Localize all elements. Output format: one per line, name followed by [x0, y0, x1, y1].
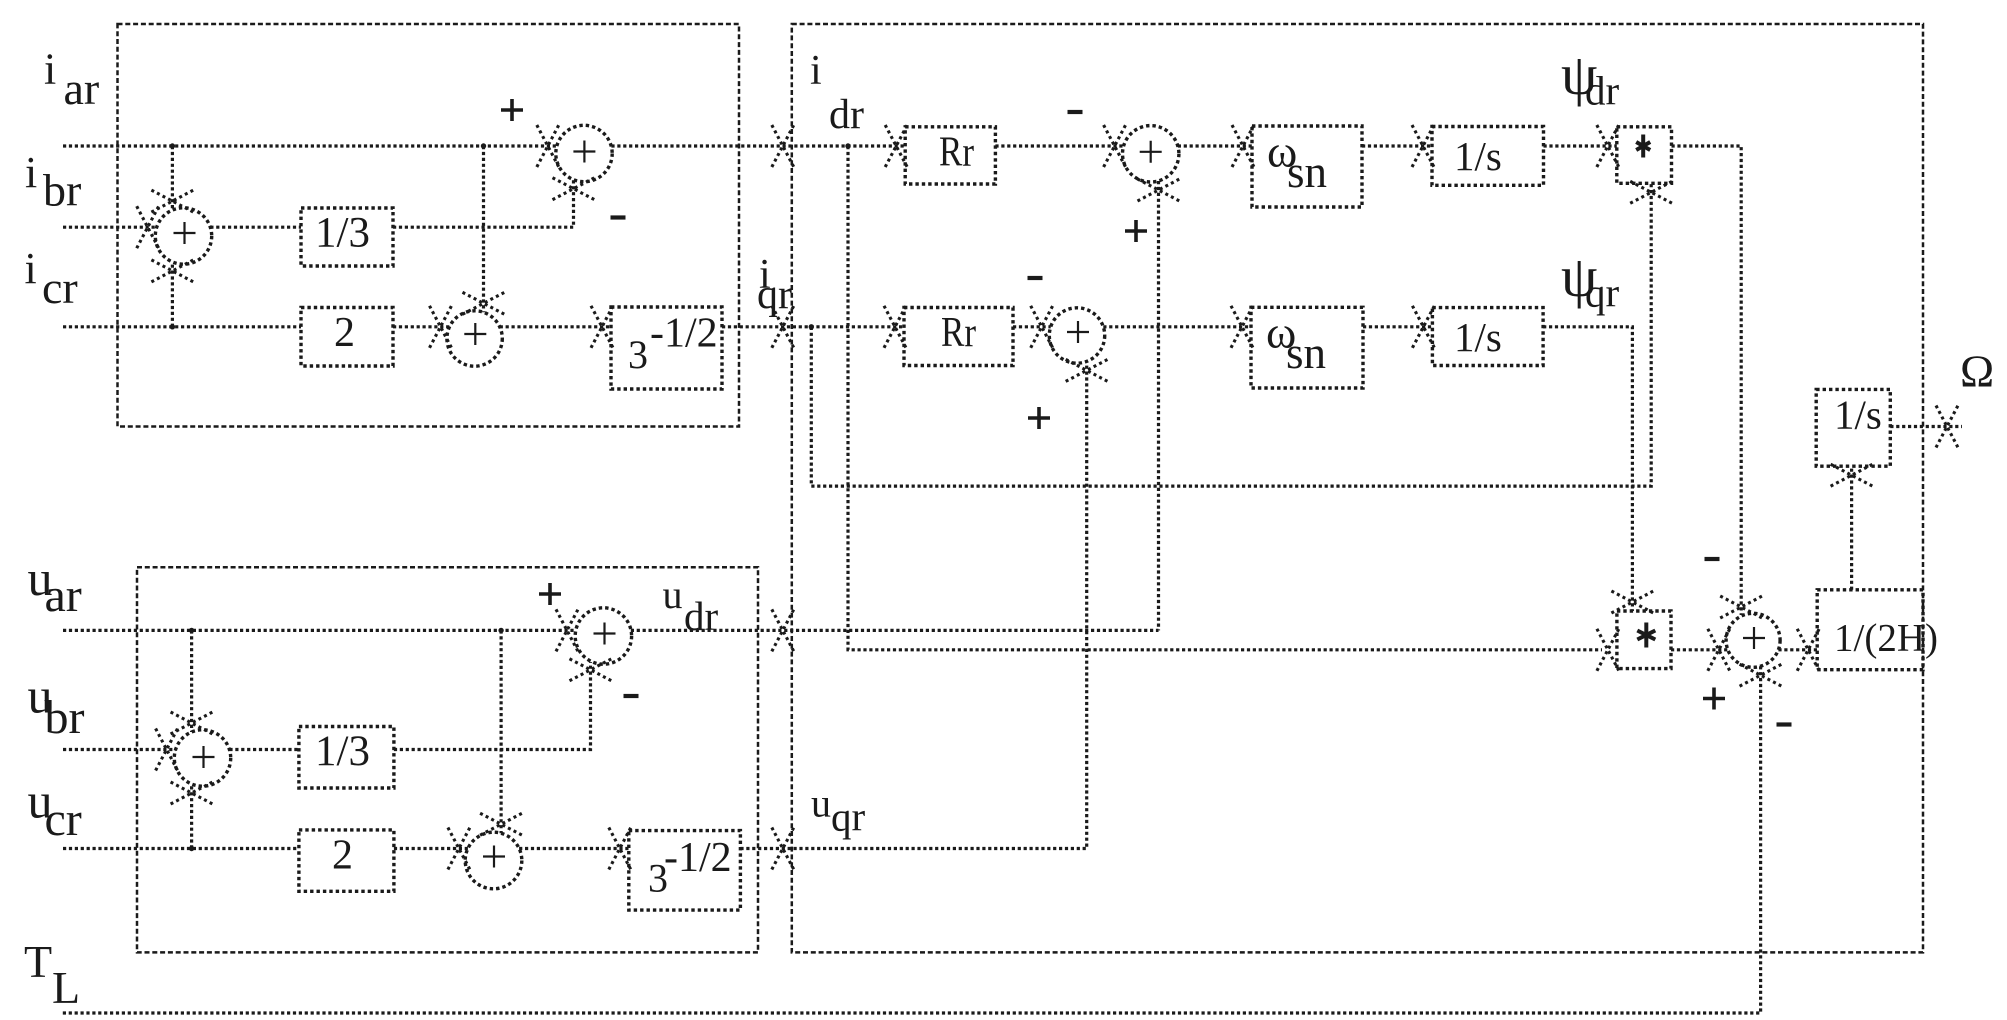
arrow into sum S2 left — [430, 306, 452, 348]
arrow into block 3^-1/2 (current) — [591, 306, 613, 348]
svg-text:ar: ar — [64, 63, 100, 114]
svg-text:1/s: 1/s — [1454, 133, 1502, 179]
minus sign at sum U3 bottom input — [624, 694, 639, 698]
wire branch i_cr up to sum S1 bottom — [171, 262, 174, 327]
node u_ar branch to U1 — [189, 628, 194, 633]
svg-text:T: T — [24, 936, 52, 987]
svg-text:-1/2: -1/2 — [664, 835, 732, 881]
arrow u_qr into right box — [772, 828, 794, 870]
arrow into sum S5 left — [1031, 306, 1053, 348]
wire sum S4 out to omega_sn1 — [1178, 144, 1252, 147]
node u_cr branch to U1 — [189, 846, 194, 851]
svg-text:qr: qr — [757, 272, 792, 318]
svg-text:qr: qr — [831, 794, 866, 840]
arrow into sum S6 left — [1708, 629, 1730, 671]
svg-text:br: br — [45, 691, 85, 744]
wire Omega output line — [1890, 425, 1962, 428]
plus sign at sum S3 left input — [501, 99, 523, 121]
multiplier M1 (psi_dr * i_qr) — [1617, 127, 1672, 184]
wire u_dr: sum U3 out into right box — [631, 629, 1159, 632]
wire psi_qr: 1/s2 out, down to multiplier M2 top — [1543, 327, 1632, 611]
box: current abc->dq transform (top-left) — [118, 24, 740, 427]
svg-text:qr: qr — [1585, 270, 1620, 316]
wire u_cr input line — [63, 847, 299, 850]
arrow into sum S1 left — [137, 206, 159, 248]
wire u_ar input line — [63, 629, 576, 632]
block 2 (voltage) — [299, 830, 394, 891]
arrow into sum U1 left — [156, 729, 178, 771]
wire sum S2 out to block 3^-1/2 — [500, 325, 611, 328]
arrow into sum U3 left — [556, 609, 578, 651]
summing junction S1 (i_br + i_ar + i_cr) — [155, 208, 211, 264]
wire sum S1 out to block 1/3 — [210, 226, 301, 229]
block 3^-1/2 (current) — [611, 307, 722, 389]
svg-text:1/s: 1/s — [1454, 314, 1502, 360]
svg-text:dr: dr — [829, 92, 864, 138]
svg-text:dr: dr — [1585, 68, 1620, 114]
arrow into Rr1 — [885, 125, 907, 167]
minus sign at sum S3 bottom input — [611, 215, 626, 219]
wire 1/3 out, up to sum U3 minus input — [394, 662, 591, 750]
wire i_qr: 3^-1/2 out to Rr2 — [722, 325, 904, 328]
arrow into 1/s2 — [1412, 306, 1434, 348]
svg-text:1/3: 1/3 — [315, 210, 370, 257]
wire branch i_dr down and right to multiplier M2 — [848, 146, 1602, 650]
wire branch u_ar down to sum U1 top — [190, 630, 193, 732]
arrow into block 1/(2H) — [1797, 629, 1819, 671]
arrow into sum S5 bottom — [1066, 359, 1108, 381]
wire branch u_ar down to sum U2 top — [500, 630, 503, 833]
minus sign at sum S4 left input — [1068, 110, 1083, 114]
svg-text:dr: dr — [684, 593, 719, 639]
svg-text:i: i — [25, 148, 37, 197]
arrow into block 3^-1/2 (voltage) — [609, 828, 631, 870]
minus sign at sum S6 bottom input — [1777, 722, 1792, 726]
wire i_cr input line — [63, 325, 301, 328]
summing junction U1 (u_br + u_ar + u_cr) — [174, 730, 230, 786]
node i_ar branch to S2 — [481, 143, 486, 148]
box: voltage abc->dq transform (bottom-left) — [137, 567, 758, 952]
svg-text:ar: ar — [45, 569, 82, 622]
arrow into sum S4 left — [1104, 125, 1126, 167]
block Rr (q-axis) — [904, 308, 1013, 366]
arrow into 1/s1 — [1412, 125, 1434, 167]
block 1/(2H) — [1817, 590, 1923, 670]
wire psi_dr: 1/s1 out to multiplier M1 — [1544, 144, 1617, 147]
svg-text:1/s: 1/s — [1834, 392, 1882, 438]
wire omega_sn2 out to integrator 1/s2 — [1363, 325, 1432, 328]
arrow into multiplier M2 left — [1597, 629, 1619, 671]
wire M1 out, down to sum S6 minus input — [1672, 146, 1742, 615]
block omega_sn (q-axis) — [1251, 307, 1363, 388]
arrow into sum U1 bottom — [171, 782, 213, 804]
wire sum U1 out to block 1/3 — [229, 748, 299, 751]
wire branch i_qr down, right, up to multiplier M1 — [811, 184, 1651, 486]
svg-text:2: 2 — [332, 833, 353, 879]
svg-text:u: u — [663, 572, 683, 617]
arrow into omega_sn1 — [1232, 125, 1254, 167]
svg-text:1/3: 1/3 — [315, 728, 370, 775]
block 1/3 (voltage) — [299, 727, 394, 789]
svg-text:sn: sn — [1286, 328, 1326, 378]
block omega_sn (d-axis) — [1252, 126, 1362, 207]
svg-text:cr: cr — [42, 262, 78, 313]
arrow into multiplier M1 left — [1597, 125, 1619, 167]
wire sum S5 out to omega_sn2 — [1103, 325, 1251, 328]
wire Rr1 out to sum S4 — [995, 144, 1123, 147]
wire 1/(2H) out up to integrator 1/s3 — [1850, 466, 1853, 590]
block 1/s (q-axis integrator) — [1432, 308, 1543, 366]
block 1/s (speed integrator) — [1816, 389, 1890, 466]
arrow Omega output — [1936, 406, 1958, 448]
plus sign at sum S6 left input — [1703, 688, 1725, 710]
summing junction S3 -> i_dr — [556, 125, 612, 181]
box: rotor flux / torque model (right) — [792, 24, 1923, 952]
wire sum U2 out to block 3^-1/2 — [519, 847, 629, 850]
wire branch i_ar down to sum S2 top — [482, 146, 485, 312]
block 3^-1/2 (voltage) — [629, 831, 741, 911]
wire sum S6 out to block 1/(2H) — [1778, 648, 1817, 651]
arrow u_dr into right box — [772, 609, 794, 651]
arrow into sum U2 top — [480, 813, 522, 835]
arrow i_qr into right box — [772, 306, 794, 348]
arrow i_dr into right box — [772, 125, 794, 167]
plus sign at sum U3 left input — [539, 583, 561, 605]
node i_cr branch to S1 — [170, 324, 175, 329]
svg-text:br: br — [43, 165, 81, 216]
svg-text:L: L — [52, 962, 80, 1013]
svg-text:3: 3 — [628, 332, 648, 377]
node i_ar branch to S1 — [170, 143, 175, 148]
arrow into 1/s3 bottom — [1831, 464, 1873, 486]
plus sign at sum S4 bottom input — [1125, 220, 1147, 242]
wire i_dr: sum S3 out to Rr1 — [611, 144, 905, 147]
minus sign at sum S5 left input — [1028, 276, 1043, 280]
svg-text:u: u — [811, 781, 831, 826]
arrow into sum U2 left — [448, 828, 470, 870]
wire omega_sn1 out to integrator 1/s1 — [1362, 144, 1432, 147]
svg-text:-1/2: -1/2 — [650, 311, 718, 357]
node u_ar branch to U2 — [498, 628, 503, 633]
arrow into sum S2 top — [463, 292, 505, 314]
svg-text:Rr: Rr — [941, 310, 976, 356]
svg-text:sn: sn — [1287, 147, 1327, 197]
svg-text:2: 2 — [334, 310, 355, 356]
wire u_dr up into sum S4 plus input — [1157, 181, 1160, 630]
multiplier M2 (psi_qr * i_dr) — [1617, 611, 1671, 669]
svg-text:Ω: Ω — [1960, 346, 1994, 397]
svg-text:1/(2H): 1/(2H) — [1834, 617, 1938, 660]
wire 1/3 out, up to sum S3 minus input — [393, 180, 574, 227]
wire u_br input line — [63, 748, 176, 751]
summing junction U3 -> u_dr — [575, 608, 631, 664]
summing junction S4 (d-axis) — [1123, 126, 1179, 182]
wire block 2 out to sum U2 — [394, 847, 468, 850]
svg-text:i: i — [44, 45, 56, 94]
wire branch i_ar down to sum S1 top — [171, 146, 174, 210]
block 1/s (d-axis integrator) — [1432, 127, 1544, 186]
wire T_L input line up into sum S6 minus input — [62, 666, 1761, 1013]
block Rr (d-axis) — [905, 127, 995, 184]
summing junction S2 — [447, 311, 502, 366]
arrow into sum U3 bottom — [570, 659, 612, 681]
svg-text:i: i — [810, 48, 822, 94]
arrow into sum S6 top — [1720, 596, 1762, 618]
svg-text:i: i — [25, 244, 37, 293]
arrow into sum S3 left — [537, 125, 559, 167]
wire branch u_cr up to sum U1 bottom — [190, 784, 193, 849]
node i_qr branch to M1 — [809, 324, 814, 329]
block 2 (current) — [301, 308, 393, 367]
summing junction S5 (q-axis) — [1049, 308, 1104, 363]
node i_dr branch to M2 — [845, 143, 850, 148]
arrow into sum S6 bottom — [1740, 664, 1782, 686]
block 1/3 (current) — [301, 208, 393, 266]
minus sign at sum S6 top input — [1705, 557, 1720, 561]
arrow into Rr2 — [884, 306, 906, 348]
summing junction S6 (torque) — [1726, 613, 1780, 667]
plus sign at sum S5 bottom input — [1028, 407, 1050, 429]
wire u_qr into right box, up to sum S5 plus input — [740, 363, 1086, 849]
wire i_br input line — [63, 226, 157, 229]
svg-text:Rr: Rr — [939, 130, 974, 176]
arrow into sum S1 top — [151, 190, 193, 212]
arrow into sum S3 bottom — [553, 178, 595, 200]
wire Rr2 out to sum S5 — [1013, 325, 1051, 328]
arrow into multiplier M1 bottom — [1630, 181, 1672, 203]
wire M2 out to sum S6 — [1671, 648, 1728, 651]
wire i_ar input line — [63, 144, 557, 147]
arrow into sum S4 bottom — [1138, 179, 1180, 201]
arrow into sum S1 bottom — [151, 260, 193, 282]
arrow into sum U1 top — [171, 712, 213, 734]
wire block 2 out to sum S2 — [393, 325, 450, 328]
arrow into omega_sn2 — [1231, 306, 1253, 348]
arrow into multiplier M2 top — [1611, 591, 1653, 613]
svg-text:cr: cr — [45, 793, 82, 846]
summing junction U2 — [465, 832, 522, 889]
